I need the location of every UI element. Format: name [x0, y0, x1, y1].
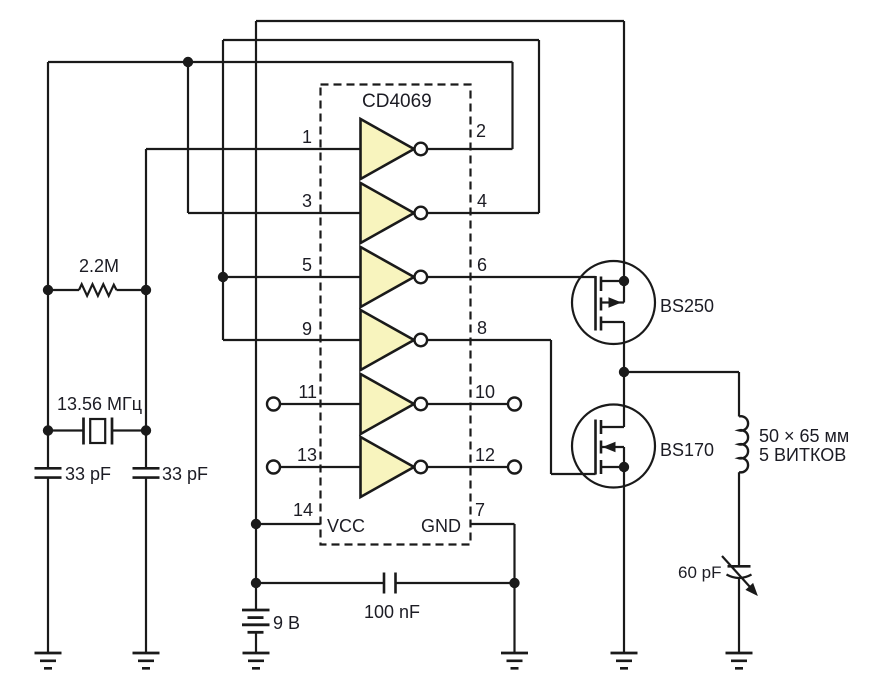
svg-text:7: 7 [475, 500, 485, 520]
node oscillator-net junction [183, 57, 193, 67]
wire pin4 output [427, 40, 539, 213]
inverter U1E (pins 11-10) [361, 374, 428, 434]
svg-text:60 pF: 60 pF [678, 563, 721, 582]
node BS250 source [619, 276, 629, 286]
svg-text:10: 10 [475, 382, 495, 402]
svg-text:8: 8 [477, 318, 487, 338]
ground left 33pF [35, 653, 62, 668]
wire BS170 source to ground [623, 467, 625, 653]
inverter U1F (pins 13-12) [361, 437, 428, 497]
svg-text:4: 4 [477, 191, 487, 211]
svg-text:VCC: VCC [327, 516, 365, 536]
svg-text:6: 6 [477, 255, 487, 275]
inverter U1A (pins 1-2) [361, 119, 428, 179]
wire resistor leads [48, 289, 146, 291]
svg-text:9 В: 9 В [273, 613, 300, 633]
wire pin3 input row [188, 212, 361, 214]
svg-text:14: 14 [293, 500, 313, 520]
transistor Q1 BS250 (P-channel MOSFET) [572, 261, 655, 344]
wire pin8 output to BS170 gate [427, 340, 596, 474]
wire junction to coil and BS170 drain [624, 372, 739, 427]
wire pin7 GND lead [471, 524, 515, 653]
wire pin9 input row [223, 339, 361, 341]
wire pin13 input row [280, 466, 361, 468]
svg-text:50 × 65 мм: 50 × 65 мм [759, 426, 849, 446]
svg-text:CD4069: CD4069 [362, 91, 432, 112]
ground pin7 / 100nF [501, 653, 528, 668]
IC CD4069 dashed box [321, 85, 471, 545]
wire VCC rail x=256 [255, 21, 257, 653]
wire pin14 VCC lead [256, 523, 321, 525]
node crystal left [43, 425, 53, 435]
node drains / antenna junction [619, 367, 629, 377]
wire crystal leads [48, 429, 146, 431]
ground BS170 source [611, 653, 638, 668]
battery 9V [242, 610, 270, 632]
ground right 33pF [133, 653, 160, 668]
pin 10 open terminal [508, 398, 521, 411]
wire pin10 output stub [427, 403, 508, 405]
wire pin1 input row [146, 148, 361, 150]
wire pin11 input row [280, 403, 361, 405]
svg-text:2.2M: 2.2M [79, 256, 119, 276]
svg-text:13.56 МГц: 13.56 МГц [57, 394, 142, 414]
wire node drop x=188 to pin3 [187, 62, 189, 213]
wire coil to trimmer [738, 472, 740, 653]
svg-text:9: 9 [302, 319, 312, 339]
wire pin4-net drop x=223 [222, 40, 224, 340]
wire pin6 output to BS250 gate [427, 276, 596, 278]
svg-text:100 nF: 100 nF [364, 602, 420, 622]
wire crystal-right rail x=146 [145, 149, 147, 653]
capacitor 33pF right [133, 468, 160, 477]
svg-text:2: 2 [476, 121, 486, 141]
node resistor left [43, 285, 53, 295]
svg-text:1: 1 [302, 127, 312, 147]
svg-text:13: 13 [297, 445, 317, 465]
crystal 13.56 MHz [84, 418, 113, 445]
transistor Q2 BS170 (N-channel MOSFET) [572, 405, 655, 488]
svg-text:BS250: BS250 [660, 296, 714, 316]
pin 12 open terminal [508, 461, 521, 474]
wire left rail x=48 [47, 62, 49, 653]
capacitor 33pF left [35, 468, 62, 477]
svg-text:12: 12 [475, 445, 495, 465]
svg-text:5 ВИТКОВ: 5 ВИТКОВ [759, 445, 846, 465]
inverter U1B (pins 3-4) [361, 183, 428, 243]
inverter U1C (pins 5-6) [361, 247, 428, 307]
pin 13 open terminal [267, 461, 280, 474]
node crystal right [141, 425, 151, 435]
node pin5 junction [218, 272, 228, 282]
pin 11 open terminal [267, 398, 280, 411]
wire 100nF row y=583 [256, 582, 515, 584]
wire VCC top rail y=21 [256, 20, 624, 22]
svg-text:5: 5 [302, 255, 312, 275]
wire pin5 input row [223, 276, 361, 278]
inverter U1D (pins 9-8) [361, 310, 428, 370]
ground battery [243, 653, 270, 668]
wire pin4 feedback y=40 [223, 39, 539, 41]
svg-text:GND: GND [421, 516, 461, 536]
resistor 2.2M [79, 284, 117, 296]
node resistor right [141, 285, 151, 295]
svg-text:11: 11 [298, 382, 317, 402]
wire oscillator net y=62 [48, 61, 513, 63]
wire pin12 output stub [427, 466, 508, 468]
svg-text:33 pF: 33 pF [162, 464, 208, 484]
svg-text:33 pF: 33 pF [65, 464, 111, 484]
capacitor 100nF [384, 573, 396, 594]
inductor L1 loop antenna coil [739, 416, 748, 472]
node battery plus / 100nF left [251, 578, 261, 588]
wire pin2 output [427, 62, 513, 149]
trimmer capacitor 60pF [722, 556, 757, 595]
svg-text:3: 3 [302, 191, 312, 211]
node VCC pin14 [251, 519, 261, 529]
ground 60pF [726, 653, 753, 668]
svg-text:BS170: BS170 [660, 440, 714, 460]
node 100nF right / pin7 [509, 578, 519, 588]
wire BS250 drain to junction [623, 21, 625, 372]
node BS170 source [619, 462, 629, 472]
